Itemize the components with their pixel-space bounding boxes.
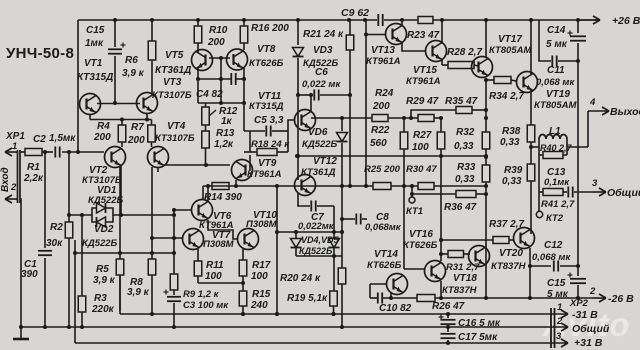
svg-text:КТ837Н: КТ837Н	[442, 285, 478, 296]
svg-text:КТ805АМ: КТ805АМ	[489, 45, 532, 56]
wire -31V rail	[120, 275, 551, 316]
resistor R12 (trimmer)	[202, 103, 238, 131]
svg-text:0,33: 0,33	[455, 174, 475, 185]
resistor R9	[170, 214, 219, 300]
junction dots mid bus	[275, 184, 488, 188]
wire VT7 base	[150, 236, 183, 240]
diode VD3	[293, 20, 339, 95]
capacitor C12	[532, 240, 580, 272]
wire VT14 emitter	[389, 292, 393, 300]
capacitor C16	[439, 314, 501, 329]
svg-text:1мк: 1мк	[85, 38, 104, 49]
wire VT5 emitter	[197, 68, 199, 103]
svg-text:R2: R2	[50, 222, 63, 233]
svg-text:2: 2	[556, 316, 563, 327]
svg-text:0,068 мк: 0,068 мк	[532, 252, 571, 263]
capacitor C2	[33, 133, 104, 158]
svg-text:200: 200	[127, 135, 145, 146]
svg-text:R7: R7	[131, 122, 144, 133]
svg-text:5 мк: 5 мк	[547, 289, 569, 300]
svg-text:0,1мк: 0,1мк	[544, 177, 570, 188]
wire VD top row	[275, 230, 342, 234]
svg-text:0,33: 0,33	[502, 176, 522, 187]
transistor VT11	[249, 91, 316, 131]
capacitor C9	[341, 7, 383, 26]
transistor VT19	[517, 72, 578, 112]
svg-text:VT17: VT17	[498, 34, 522, 45]
resistor R19	[287, 256, 337, 316]
diode VD5	[299, 239, 340, 257]
wire output column	[587, 111, 589, 147]
capacitor C8	[342, 212, 402, 233]
wire VT1 emitter row	[90, 113, 152, 122]
svg-text:R38: R38	[502, 126, 521, 137]
wire VD loop out	[113, 213, 176, 217]
svg-text:С16 5 мк: С16 5 мк	[458, 318, 501, 329]
svg-text:R18 24 к: R18 24 к	[251, 139, 290, 150]
capacitor C15	[85, 20, 126, 105]
transistor VT20	[491, 228, 535, 273]
svg-text:КТ2: КТ2	[546, 213, 564, 224]
svg-text:VT13: VT13	[371, 45, 395, 56]
capacitor C15-2	[547, 273, 586, 301]
transistor VT16	[403, 229, 446, 282]
svg-text:0,068 мк: 0,068 мк	[536, 77, 575, 88]
transistor VT2	[82, 147, 126, 187]
svg-text:КТ626Б: КТ626Б	[403, 240, 438, 251]
diode VD6	[302, 116, 348, 186]
resistor R17	[239, 249, 271, 283]
resistor R26	[417, 295, 593, 313]
svg-text:КТ961А: КТ961А	[366, 56, 401, 67]
resistor R37	[441, 219, 524, 244]
wire x486 column lower	[484, 194, 488, 300]
svg-text:R26 47: R26 47	[432, 301, 465, 312]
svg-text:R14 390: R14 390	[204, 192, 242, 203]
svg-text:R16 200: R16 200	[251, 23, 289, 34]
svg-text:0,068мк: 0,068мк	[365, 222, 402, 233]
transistor VT4	[148, 121, 195, 168]
transistor VT10	[238, 210, 278, 250]
diode VD1	[88, 185, 124, 215]
svg-text:3: 3	[556, 331, 562, 342]
svg-text:R25 200: R25 200	[364, 164, 401, 175]
connector XP2 pin 2	[550, 316, 610, 335]
wire +31V rail	[75, 341, 550, 345]
svg-text:R3: R3	[94, 293, 107, 304]
label VT5 type	[155, 50, 191, 76]
capacitor C13	[539, 167, 570, 192]
wire row A	[311, 117, 372, 119]
svg-text:УНЧ-50-8: УНЧ-50-8	[6, 45, 74, 62]
svg-text:R29 47: R29 47	[406, 96, 439, 107]
svg-text:R19 5,1к: R19 5,1к	[287, 293, 328, 304]
svg-text:КТ626Б: КТ626Б	[249, 58, 284, 69]
svg-text:R23 47: R23 47	[407, 30, 440, 41]
svg-text:С14: С14	[547, 25, 566, 36]
connector XP1 pin 2	[5, 182, 21, 327]
svg-text:Общий: Общий	[607, 187, 640, 199]
svg-text:R21 24 к: R21 24 к	[303, 29, 344, 40]
capacitor C6	[298, 67, 352, 101]
resistor R7	[127, 120, 155, 148]
wire R5-R8 top link	[73, 251, 176, 255]
svg-text:С10 82: С10 82	[379, 303, 412, 314]
resistor R34	[484, 77, 524, 103]
svg-text:VT15: VT15	[413, 65, 437, 76]
capacitor C17	[441, 327, 499, 343]
svg-text:VD2: VD2	[94, 224, 114, 235]
svg-text:П308М: П308М	[246, 219, 278, 230]
resistor R5	[93, 167, 124, 311]
svg-text:200: 200	[372, 101, 390, 112]
wire output top	[588, 97, 640, 118]
svg-text:-26 В: -26 В	[608, 293, 634, 305]
svg-text:Общий: Общий	[572, 323, 610, 335]
svg-text:VT18: VT18	[453, 273, 477, 284]
resistor R28	[442, 47, 482, 69]
transistor VT1	[77, 58, 113, 115]
wire VD5 column	[333, 206, 335, 238]
title УНЧ-50-8	[6, 45, 74, 62]
resistor R20	[280, 186, 346, 327]
svg-text:R10: R10	[209, 25, 228, 36]
svg-text:С3 100 мк: С3 100 мк	[183, 300, 229, 311]
svg-text:R13: R13	[216, 128, 235, 139]
svg-text:R32: R32	[456, 127, 475, 138]
inductor L1	[529, 126, 567, 149]
transistor VT12	[295, 156, 338, 196]
transistor VT9	[232, 155, 282, 188]
resistor R38	[500, 90, 535, 164]
svg-text:30к: 30к	[46, 238, 63, 249]
svg-text:100: 100	[205, 271, 222, 282]
svg-text:R41 2,7: R41 2,7	[541, 199, 575, 210]
capacitor C3	[164, 290, 230, 328]
svg-text:VT1: VT1	[84, 58, 103, 69]
wire R36 row	[412, 192, 488, 196]
resistor R24	[372, 88, 418, 122]
svg-text:0,022 мк: 0,022 мк	[302, 79, 341, 90]
resistor R15	[239, 283, 271, 316]
wire C16 links	[529, 326, 531, 328]
resistor R10	[194, 20, 228, 53]
testpoint KT1	[406, 186, 423, 217]
svg-text:1к: 1к	[221, 116, 233, 127]
resistor R14	[203, 183, 242, 204]
resistor R33	[455, 162, 490, 192]
svg-text:4: 4	[589, 97, 596, 108]
wire mid bus	[203, 185, 486, 187]
svg-text:3,9 к: 3,9 к	[127, 287, 150, 298]
testpoint KT2	[536, 192, 563, 224]
svg-text:R22: R22	[371, 125, 390, 136]
wire VD4 column	[295, 232, 297, 238]
svg-text:R5: R5	[96, 264, 109, 275]
svg-text:R27: R27	[413, 130, 432, 141]
resistor R25	[364, 164, 401, 190]
svg-text:КД522Б: КД522Б	[299, 246, 333, 256]
label VT4 type2	[0, 0, 1, 1]
transistor VT13	[366, 24, 407, 68]
resistor R11	[194, 249, 224, 283]
svg-text:560: 560	[370, 138, 387, 149]
svg-text:КТ1: КТ1	[406, 206, 423, 217]
svg-text:R6: R6	[125, 55, 138, 66]
resistor R1	[20, 149, 44, 185]
wire R11-R17 link	[198, 281, 245, 285]
svg-text:1: 1	[12, 141, 17, 152]
transistor VT15	[406, 41, 447, 88]
wire VT19 collector	[530, 20, 532, 74]
power arrow Obschiy 3	[592, 178, 640, 199]
diode VD4	[291, 235, 340, 248]
svg-text:Выход: Выход	[610, 106, 640, 118]
svg-text:КТ837Н: КТ837Н	[491, 261, 527, 272]
svg-text:С12: С12	[544, 240, 563, 251]
svg-text:R9 1,2 к: R9 1,2 к	[183, 289, 220, 300]
svg-text:VT8: VT8	[257, 44, 276, 55]
svg-text:100: 100	[412, 142, 429, 153]
svg-text:С11: С11	[547, 65, 565, 76]
svg-text:КТ3107Б: КТ3107Б	[155, 133, 195, 144]
wire VT15 collector	[441, 20, 443, 43]
wire VT1 base column	[77, 20, 79, 152]
power arrow +26V	[578, 15, 640, 27]
power arrow -26V 2	[569, 286, 634, 309]
diode VD2	[82, 215, 118, 249]
svg-text:2: 2	[10, 182, 17, 193]
svg-text:ХР2: ХР2	[569, 298, 589, 309]
resistor R21	[303, 20, 354, 188]
wire VT6 collector	[206, 184, 210, 202]
wire VT13 collector	[400, 18, 404, 26]
wire VT14 base	[370, 284, 387, 298]
resistor R8	[127, 167, 156, 314]
wire bias row	[295, 154, 488, 158]
svg-text:R1: R1	[27, 162, 40, 173]
svg-text:240: 240	[250, 300, 268, 311]
resistor R22	[370, 118, 408, 186]
svg-text:С15: С15	[547, 278, 566, 289]
wire VT6 emitter to VT10	[208, 220, 238, 239]
svg-text:200: 200	[207, 37, 225, 48]
svg-text:КТ3107Б: КТ3107Б	[152, 90, 192, 101]
svg-text:R17: R17	[252, 260, 271, 271]
svg-text:КТ626Б: КТ626Б	[367, 260, 402, 271]
svg-text:R37 2,7: R37 2,7	[489, 219, 524, 230]
capacitor C1	[21, 152, 52, 327]
wire VT17 collector	[485, 20, 487, 58]
transistor VT5	[192, 50, 213, 71]
resistor R27	[412, 118, 445, 261]
svg-text:С6: С6	[315, 67, 328, 78]
wire long vertical mid	[275, 186, 279, 316]
wire ground rail	[19, 325, 551, 329]
svg-text:R33: R33	[457, 162, 476, 173]
connector XP1 pin 1	[5, 131, 25, 156]
svg-text:VT5: VT5	[165, 50, 184, 61]
svg-text:-31 В: -31 В	[572, 309, 598, 321]
svg-text:С4 82: С4 82	[196, 89, 223, 100]
svg-text:R20 24 к: R20 24 к	[280, 273, 321, 284]
wire R8 drop	[0, 0, 1, 1]
resistor R36	[444, 191, 477, 214]
svg-text:VT14: VT14	[374, 249, 398, 260]
svg-text:КД522Б: КД522Б	[88, 195, 124, 206]
wire VT20 emitter	[528, 248, 551, 300]
resistor R16	[240, 20, 289, 50]
svg-text:2,2к: 2,2к	[23, 173, 44, 184]
svg-text:С2: С2	[33, 134, 46, 145]
svg-text:С9 62: С9 62	[341, 7, 369, 19]
svg-text:R35 47: R35 47	[445, 96, 478, 107]
svg-text:КТ361Д: КТ361Д	[301, 167, 336, 178]
svg-text:+31 В: +31 В	[574, 337, 603, 349]
svg-text:VD3: VD3	[313, 45, 333, 56]
svg-text:VT4: VT4	[167, 121, 186, 132]
connector XP2 pin 1	[550, 302, 598, 321]
svg-text:R31 2,7: R31 2,7	[446, 262, 480, 273]
svg-text:КТ805АМ: КТ805АМ	[534, 100, 577, 111]
svg-text:VT16: VT16	[409, 229, 433, 240]
resistor R3	[78, 215, 114, 327]
svg-text:R4: R4	[97, 121, 110, 132]
svg-text:100: 100	[251, 271, 268, 282]
wire VT5-VT8 base link	[209, 56, 230, 105]
svg-text:Вход: Вход	[0, 167, 11, 192]
svg-text:+26 В: +26 В	[612, 15, 640, 27]
resistor R30	[406, 164, 437, 190]
svg-text:R34 2,7: R34 2,7	[489, 91, 524, 102]
wire R12 top row	[198, 102, 244, 104]
svg-text:5 мк: 5 мк	[546, 39, 568, 50]
resistor R6	[122, 20, 156, 93]
svg-text:0,33: 0,33	[454, 141, 474, 152]
svg-text:3: 3	[592, 178, 598, 189]
wire VD3 to VT12 base	[296, 93, 300, 180]
transistor VT18	[442, 246, 490, 297]
wire VT4 emitter row	[158, 163, 230, 172]
svg-text:3,9 к: 3,9 к	[93, 275, 116, 286]
svg-text:VT19: VT19	[546, 89, 570, 100]
svg-text:220к: 220к	[91, 304, 115, 315]
resistor R32	[454, 78, 490, 165]
svg-text:КТ361Д: КТ361Д	[155, 65, 191, 76]
resistor R2	[46, 152, 73, 327]
resistor R41	[541, 187, 593, 211]
wire VT13 base	[364, 20, 386, 188]
svg-text:R24: R24	[375, 88, 394, 99]
svg-text:R39: R39	[504, 165, 523, 176]
svg-text:КД522Б: КД522Б	[302, 139, 338, 150]
resistor R29	[406, 96, 443, 122]
wire VT1-VT3 base link	[97, 103, 140, 105]
connector XP1 bracket	[18, 150, 21, 203]
svg-text:КТ961А: КТ961А	[247, 169, 282, 180]
wire +26V top rail	[78, 19, 600, 21]
capacitor C14	[546, 20, 586, 276]
wire VT16 base	[404, 186, 425, 269]
svg-text:0,022мк: 0,022мк	[298, 221, 335, 232]
svg-text:VT20: VT20	[499, 248, 523, 259]
svg-text:R36 47: R36 47	[444, 202, 477, 213]
svg-text:С15: С15	[86, 25, 105, 36]
resistor R31	[441, 251, 480, 274]
svg-text:L1: L1	[549, 126, 561, 137]
svg-text:3,9 к: 3,9 к	[122, 68, 145, 79]
svg-text:VD6: VD6	[308, 127, 328, 138]
svg-text:0,33: 0,33	[500, 137, 520, 148]
transistor VT3	[137, 77, 192, 114]
resistor R13	[202, 128, 235, 165]
resistor R23	[407, 17, 440, 42]
resistor R40	[539, 139, 588, 192]
svg-text:R40 2,7: R40 2,7	[540, 143, 573, 153]
wire VT8 emitter column	[242, 68, 246, 131]
capacitor C5	[244, 115, 288, 137]
wire VT6 base stub	[172, 208, 192, 215]
svg-text:2: 2	[589, 286, 596, 297]
svg-text:КД522Б: КД522Б	[82, 238, 118, 249]
resistor R18	[244, 131, 290, 156]
svg-text:1,2к: 1,2к	[214, 139, 234, 150]
transistor VT17	[472, 34, 533, 78]
label Вход	[0, 167, 11, 192]
ground symbol	[13, 327, 29, 339]
svg-text:R30 47: R30 47	[406, 164, 437, 175]
connector XP2 bracket	[551, 308, 555, 348]
resistor R4	[93, 120, 126, 148]
capacitor C7	[298, 193, 335, 232]
resistor R39	[502, 164, 535, 234]
svg-text:КТ315Д: КТ315Д	[77, 72, 113, 83]
svg-text:200: 200	[93, 132, 111, 143]
connector XP2 pin 3	[550, 331, 603, 349]
svg-text:VT9: VT9	[258, 158, 277, 169]
svg-text:1: 1	[557, 302, 562, 313]
svg-text:С17 5мк: С17 5мк	[458, 332, 498, 343]
wire VD4-VD5 bottom	[296, 248, 342, 258]
svg-text:КТ961А: КТ961А	[406, 76, 441, 87]
svg-text:1,5мк: 1,5мк	[49, 133, 76, 144]
capacitor C10	[370, 293, 417, 315]
svg-text:П308М: П308М	[203, 239, 235, 250]
transistor VT6	[192, 200, 234, 232]
svg-text:R15: R15	[252, 289, 271, 300]
capacitor C11	[536, 20, 580, 88]
svg-text:390: 390	[21, 269, 38, 280]
svg-text:VT3: VT3	[163, 77, 182, 88]
svg-text:R11: R11	[206, 260, 224, 271]
transistor VT7	[183, 229, 235, 251]
transistor VT14	[367, 249, 408, 295]
svg-text:КТ315Д: КТ315Д	[249, 101, 284, 112]
wire VT16 emitter	[439, 281, 443, 300]
wire VD loop feed	[67, 166, 121, 217]
svg-text:R28 2,7: R28 2,7	[447, 47, 482, 58]
resistor R35	[411, 96, 488, 118]
wire VT13 emitter to VT15	[402, 43, 426, 51]
wire to +31V corner	[74, 240, 76, 343]
capacitor C4	[196, 73, 246, 100]
svg-text:С5 3,3: С5 3,3	[254, 115, 284, 126]
junction dots top rail	[113, 18, 580, 22]
transistor VT8	[227, 44, 284, 70]
svg-text:VT12: VT12	[313, 156, 337, 167]
